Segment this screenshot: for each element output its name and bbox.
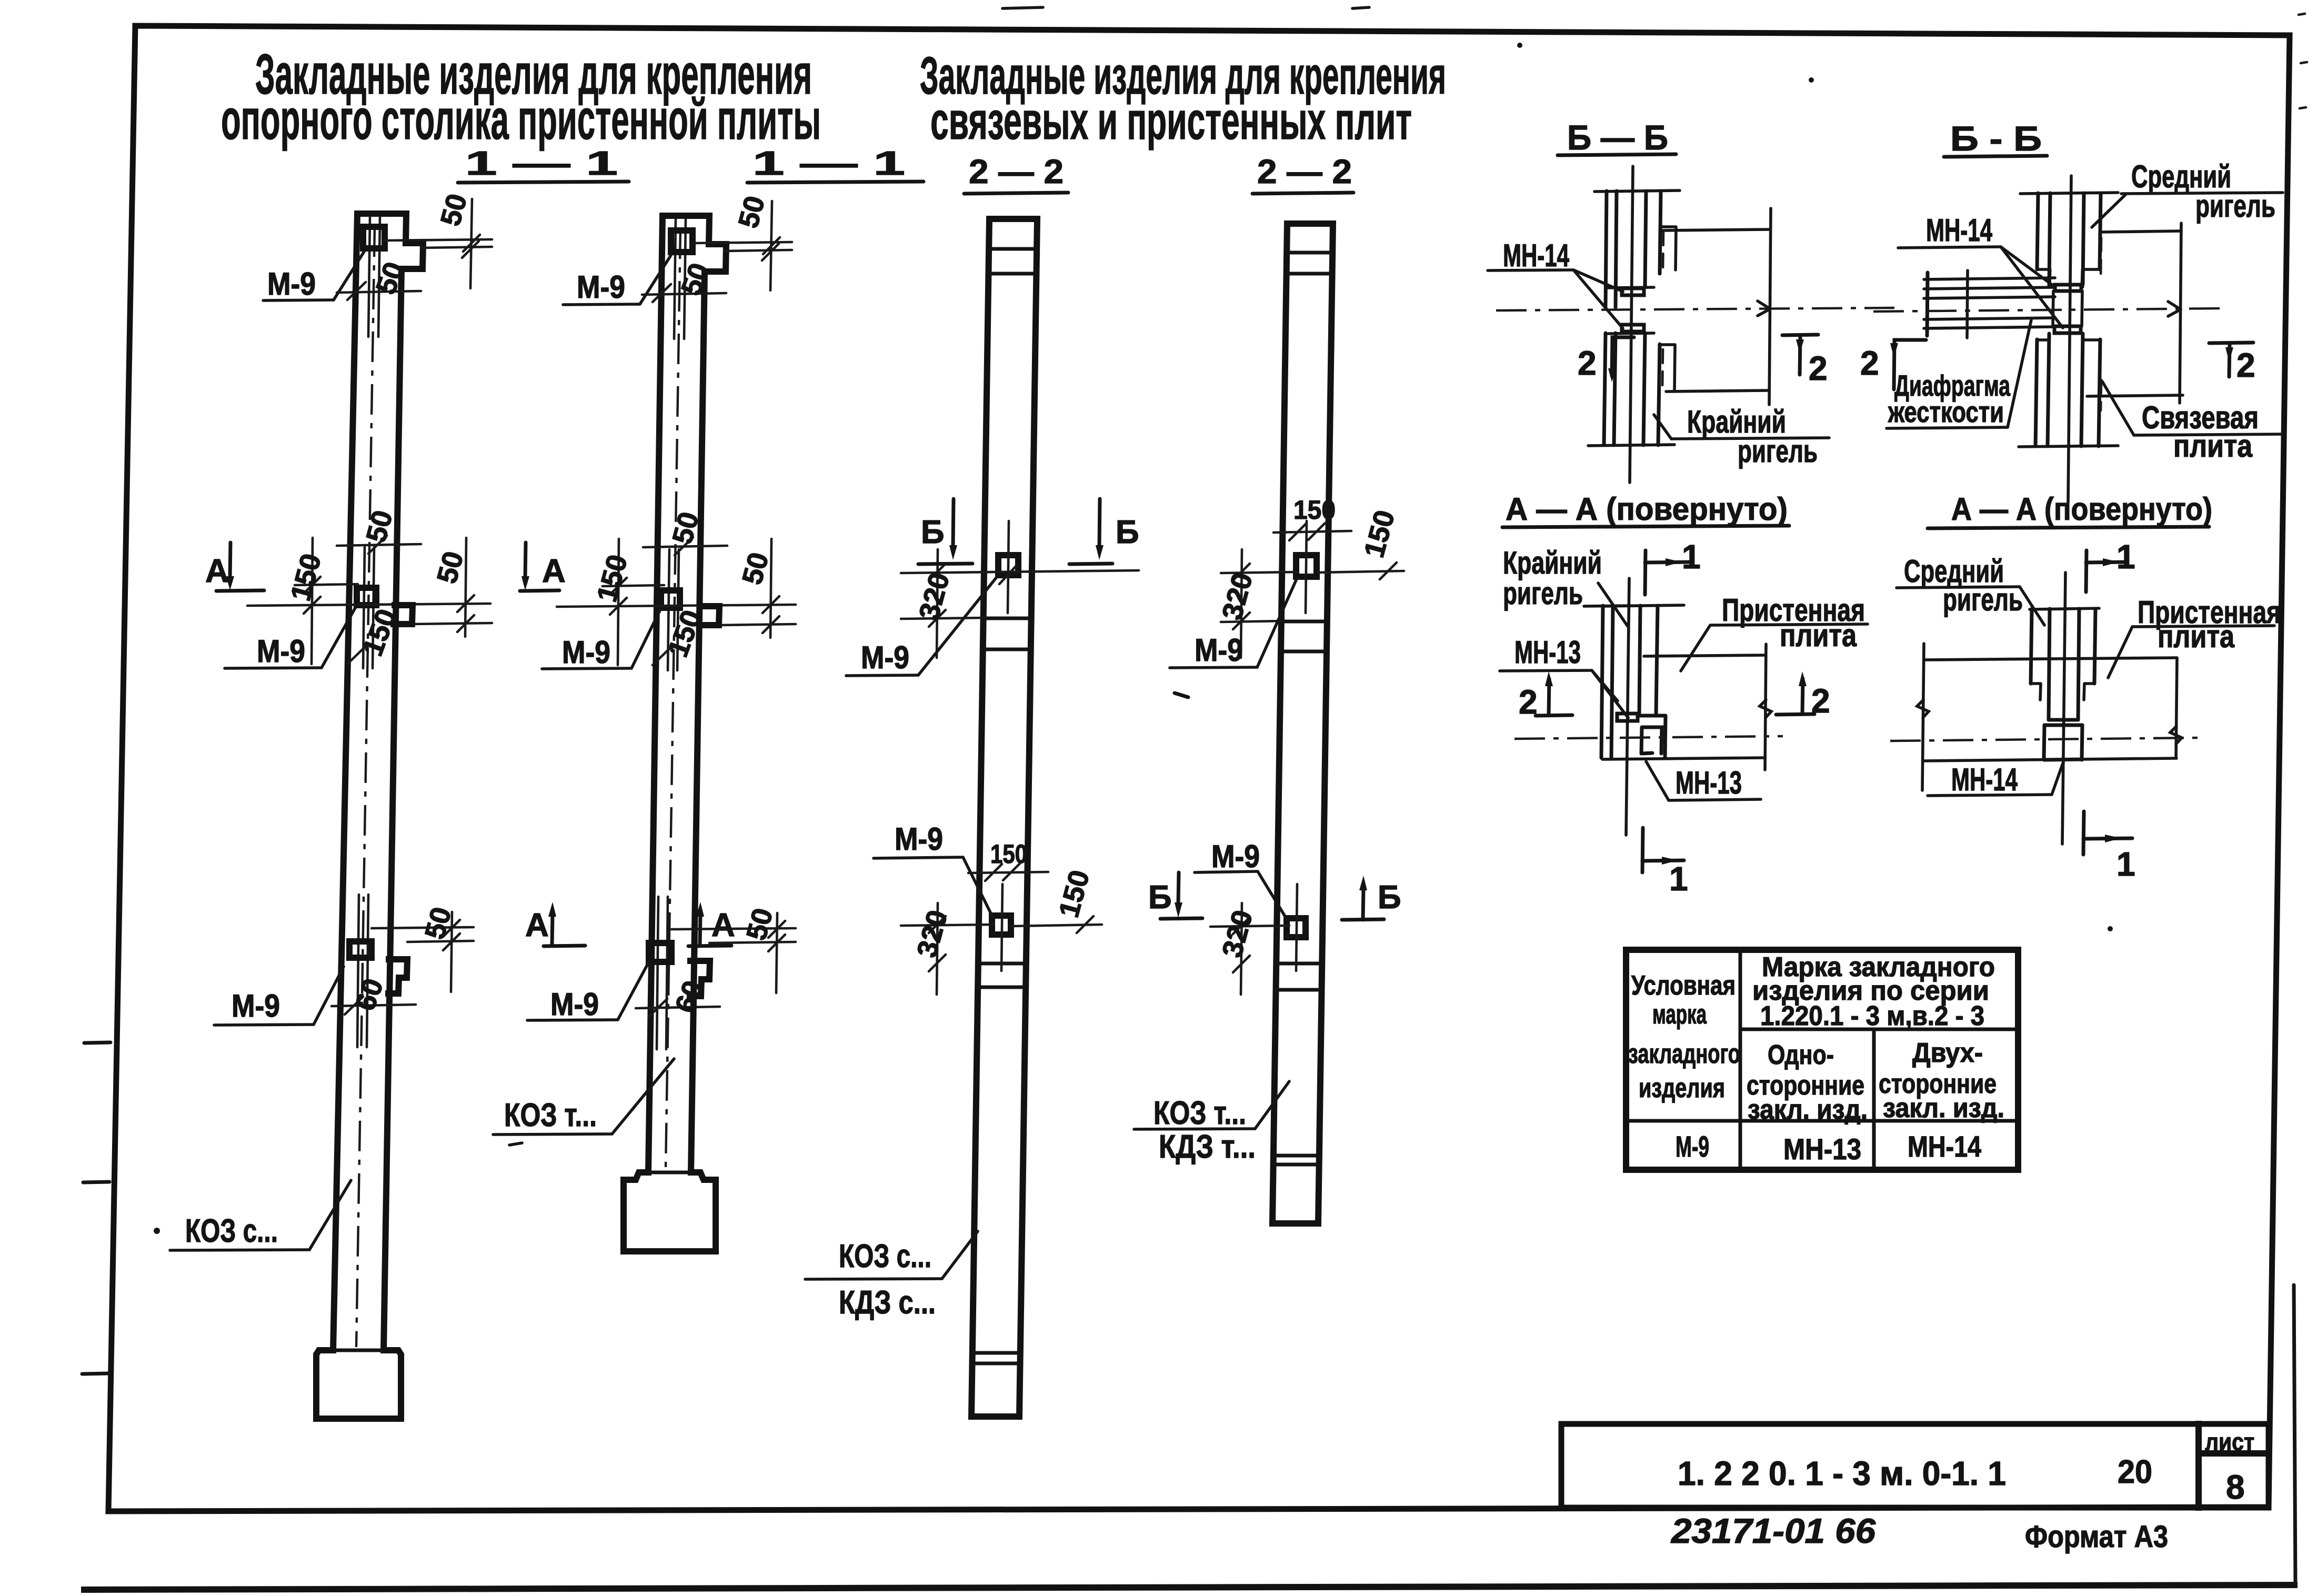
- dimension 50 right of middle corbel column 2: [718, 539, 796, 638]
- svg-text:23171-01 66: 23171-01 66: [1670, 1511, 1876, 1550]
- column 4 bottom band: [1273, 1154, 1319, 1158]
- dimension 150 left of middle plate column 1: [247, 538, 490, 664]
- column 2 foot shoulder line: [648, 1171, 691, 1175]
- svg-text:М-9: М-9: [895, 821, 943, 857]
- dimension 320 first on column 4: [1221, 549, 1298, 658]
- svg-text:МН-13: МН-13: [1783, 1132, 1861, 1166]
- section mark А bottom right of column 2: [688, 902, 735, 946]
- dimension 150 left of middle plate column 2: [557, 539, 796, 665]
- svg-text:М-9: М-9: [861, 640, 909, 675]
- column 3 bottom band: [972, 1351, 1020, 1355]
- left margin tick 3: [82, 1373, 108, 1374]
- scan speck top dash 1: [1002, 7, 1043, 8]
- svg-text:М-9: М-9: [1676, 1130, 1709, 1163]
- column 2 anchor lines top: [674, 219, 686, 339]
- dimension 320 first on column 3: [929, 549, 1018, 658]
- svg-text:М-9: М-9: [577, 269, 625, 305]
- А-А2 section flag 1 bottom: [2083, 811, 2135, 883]
- scan speck right edge marks: [2299, 14, 2307, 108]
- svg-text:8: 8: [2226, 1468, 2245, 1506]
- Б-Б1 lower column verticals: [1604, 333, 1660, 445]
- section mark А bottom left of column 2: [525, 902, 585, 946]
- svg-text:МН-14: МН-14: [1503, 238, 1569, 273]
- embedded plate М-9 middle on column 2: [661, 590, 680, 608]
- svg-text:А: А: [525, 907, 549, 943]
- svg-text:М-9: М-9: [1195, 633, 1243, 668]
- embedded plate М-9 first on column 3: [998, 555, 1018, 575]
- Б-Б2 diaphragm horizontal lines: [1924, 278, 2055, 328]
- svg-text:МН-14: МН-14: [1908, 1130, 1981, 1163]
- svg-text:связевых и пристенных плит: связевых и пристенных плит: [930, 92, 1412, 150]
- column 2 centerline: [666, 228, 680, 1168]
- table outer border: [1626, 950, 2018, 1170]
- svg-text:М-9: М-9: [1211, 839, 1260, 874]
- dimension 320 second on column 4: [1210, 903, 1289, 995]
- scan speck dot near title: [1517, 43, 1522, 48]
- column 1 anchor lines bottom: [357, 895, 368, 1047]
- svg-text:А: А: [542, 553, 566, 589]
- scan speck dot above Б-Б: [1809, 77, 1814, 83]
- Б-Б2 embedded plate МН-14 lower: [2054, 326, 2081, 333]
- А-А1 section flag 2 left: [1519, 671, 1572, 721]
- embedded plate М-9 top on column 1: [363, 227, 385, 248]
- Б-Б1 upper plate seat line: [1608, 287, 1654, 288]
- embedded plate М-9 first on column 4: [1296, 555, 1317, 577]
- Б-Б2 beam hidden top dash: [2101, 238, 2101, 279]
- outer sheet bottom edge: [84, 1585, 2294, 1590]
- Б-Б1 lower plate МН-14: [1622, 325, 1644, 332]
- А-А1 section flag 1 bottom: [1642, 828, 1688, 898]
- title block ЛИСТ cell divider horizontal: [2199, 1450, 2269, 1457]
- embedded plate М-9 bottom on column 2: [649, 943, 671, 962]
- svg-text:М-9: М-9: [232, 988, 280, 1023]
- Б-Б2 beam right boundary with arrow: [2180, 223, 2181, 403]
- table horizontal divider 1: [1740, 1028, 2018, 1031]
- middle corbel of column 2: [699, 606, 719, 625]
- Б-Б1 beam right boundary with arrow: [1769, 208, 1771, 405]
- column elevation 1-1 second (КОЗ т...): [493, 193, 796, 1251]
- Б-Б2 beam top edge: [2101, 231, 2181, 232]
- А-А1 section flag 2 right: [1776, 671, 1830, 720]
- column 1 foot shoulder lines: [333, 1349, 384, 1352]
- scan speck dot left margin: [154, 1228, 160, 1234]
- Б-Б2 diaphragm left end bar: [1927, 273, 1928, 336]
- А-А2 plate top edge: [1924, 658, 2176, 660]
- svg-text:Б: Б: [921, 514, 945, 550]
- А-А2 column verticals: [2031, 609, 2095, 720]
- Б-Б1 hidden edge dashes upper: [1663, 232, 1663, 270]
- column 3 band below first plate: [984, 617, 1031, 620]
- А-А1 embedded angle МН-13 upper: [1617, 714, 1638, 721]
- table vertical divider 2: [1872, 1029, 1876, 1170]
- column 3 band below second plate: [978, 962, 1026, 966]
- svg-text:КОЗ т...: КОЗ т...: [504, 1097, 597, 1133]
- table vertical divider 1: [1739, 950, 1742, 1170]
- section mark А left of column 1: [205, 543, 264, 591]
- detail А-А second (средний ригель, МН-14): [1890, 538, 2281, 883]
- left margin tick 1: [84, 1042, 111, 1043]
- column 4 plate 2 axis vertical: [1296, 884, 1297, 971]
- Б-Б1 centerline vertical: [1630, 166, 1633, 483]
- А-А2 joint plates: [2044, 720, 2082, 725]
- embedded plate М-9 bottom on column 1: [349, 941, 372, 958]
- Б-Б1 embedded plate МН-14 upper: [1622, 288, 1644, 295]
- svg-text:2: 2: [1860, 344, 1879, 382]
- svg-text:закл. изд.: закл. изд.: [1748, 1095, 1868, 1125]
- scan speck dash middle: [509, 1143, 522, 1145]
- Б-Б1 hidden edge dashes lower: [1662, 349, 1663, 389]
- svg-text:1: 1: [2117, 845, 2135, 883]
- А-А2 plate bottom edge: [1923, 758, 2176, 761]
- column 3 outline: [971, 219, 1037, 1417]
- svg-text:жесткости: жесткости: [1888, 395, 2004, 428]
- column 1 anchor lines top: [368, 217, 380, 337]
- section mark Б second right of column 4: [1342, 876, 1401, 920]
- А-А2 column top cap: [2030, 608, 2099, 609]
- А-А2 section flag 1 top: [2086, 538, 2135, 592]
- svg-text:1 — 1: 1 — 1: [753, 144, 905, 182]
- svg-text:А: А: [711, 907, 735, 943]
- detail Б-Б first (крайний ригель): [1488, 166, 1894, 483]
- dimension 50 top right of column 1: [385, 199, 492, 288]
- А-А1 axis dash-dot horizontal: [1514, 736, 1783, 739]
- column 3 plate 2 axis vertical: [1001, 884, 1002, 971]
- svg-text:М-9: М-9: [267, 266, 316, 302]
- svg-text:закл. изд.: закл. изд.: [1883, 1093, 2004, 1123]
- svg-text:1: 1: [1682, 538, 1701, 576]
- А-А2 axis dash-dot horizontal: [1890, 738, 2199, 741]
- section mark Б first left of column 3: [918, 499, 972, 564]
- Б-Б2 section flag 2 left: [1860, 340, 1926, 389]
- column elevation 2-2 second (КОЗ т/КДЗ т): [1134, 224, 1404, 1223]
- svg-text:изделия: изделия: [1639, 1073, 1725, 1103]
- svg-text:М-9: М-9: [550, 987, 599, 1022]
- Б-Б1 section flag 2 left: [1578, 337, 1634, 382]
- column 1 centerline: [356, 226, 375, 1347]
- А-А1 column top cap: [1602, 605, 1684, 606]
- column 2 anchor lines middle: [668, 549, 679, 670]
- svg-text:МН-14: МН-14: [1926, 213, 1992, 248]
- title block outline: [1561, 1424, 2269, 1508]
- svg-text:2: 2: [2236, 346, 2255, 384]
- А-А1 plate break mark: [1760, 700, 1771, 718]
- section mark А left of column 2: [520, 543, 566, 591]
- Б-Б2 bottom cap line: [2019, 446, 2118, 447]
- А-А2 lower block: [2044, 725, 2082, 760]
- Б-Б2 centerline vertical: [2068, 176, 2071, 502]
- svg-text:Б: Б: [1116, 514, 1139, 550]
- А-А2 column centerline vertical: [2062, 573, 2065, 844]
- section mark Б first right of column 3: [1069, 499, 1139, 564]
- Б-Б2 inner verticals to joint: [2049, 269, 2083, 287]
- svg-text:2 — 2: 2 — 2: [969, 153, 1064, 190]
- Б-Б1 upper right ledge: [1660, 227, 1676, 270]
- dimension 150 rotated right of plate 2 column 3: [1011, 925, 1102, 926]
- svg-text:А — А (повернуто): А — А (повернуто): [1951, 491, 2212, 527]
- svg-text:1: 1: [1669, 860, 1688, 898]
- Б-Б1 beam top edge: [1661, 229, 1770, 230]
- Б-Б1 section flag 2 right: [1782, 335, 1828, 387]
- svg-text:МН-13: МН-13: [1514, 635, 1581, 670]
- column 4 outline: [1272, 224, 1333, 1223]
- svg-text:КДЗ с...: КДЗ с...: [839, 1284, 936, 1321]
- table of embedded item marks: [1626, 950, 2018, 1170]
- dimension 50 right of middle corbel column 1: [413, 538, 492, 637]
- middle corbel of column 1: [394, 605, 413, 624]
- dimension 50 at top plate of column 1: [337, 291, 421, 293]
- title block ЛИСТ cell divider vertical: [2195, 1424, 2202, 1508]
- Б-Б1 joint axis dash-dot: [1496, 308, 1894, 310]
- А-А1 plate top edge: [1644, 655, 1766, 656]
- scan speck dash between columns: [1175, 693, 1188, 697]
- svg-text:КОЗ т...: КОЗ т...: [1154, 1095, 1246, 1131]
- column 4 band below second plate: [1276, 962, 1322, 966]
- svg-text:2 — 2: 2 — 2: [1257, 153, 1352, 190]
- table horizontal divider 2: [1626, 1119, 2018, 1123]
- svg-text:1: 1: [2117, 538, 2135, 576]
- column 4 top joint band: [1287, 251, 1332, 255]
- svg-text:Одно-: Одно-: [1768, 1040, 1834, 1070]
- dimension 50 at top plate of column 2: [642, 293, 726, 295]
- svg-text:Двух-: Двух-: [1912, 1038, 1983, 1068]
- embedded plate М-9 top on column 2: [671, 230, 693, 252]
- svg-text:М-9: М-9: [562, 635, 610, 670]
- stray scan marks: [154, 7, 2307, 1234]
- svg-text:2: 2: [1809, 349, 1828, 387]
- Б-Б1 bottom cap line: [1588, 445, 1674, 446]
- title block: [1561, 1424, 2269, 1554]
- svg-text:1 — 1: 1 — 1: [465, 144, 618, 182]
- Б-Б2 upper steps: [2037, 268, 2100, 271]
- bottom corbel of column 2: [690, 961, 710, 996]
- svg-text:1.220.1 - 3 м,в.2 - 3: 1.220.1 - 3 м,в.2 - 3: [1760, 1001, 1984, 1031]
- А-А1 column centerline vertical: [1626, 578, 1629, 835]
- Б-Б1 lower right ledge: [1659, 345, 1675, 391]
- Б-Б2 upper column verticals: [2037, 193, 2101, 284]
- column elevation 2-2 first (КОЗ с/КДЗ с): [805, 219, 1139, 1417]
- dimension 60 bottom plate column 2: [636, 1007, 720, 1008]
- svg-text:М-9: М-9: [257, 634, 305, 669]
- Б-Б2 beam bottom edge: [2087, 395, 2183, 396]
- А-А1 section flag 1 top: [1645, 538, 1701, 595]
- svg-text:МН-14: МН-14: [1951, 762, 2018, 797]
- embedded plate М-9 second on column 3: [992, 916, 1011, 935]
- left margin tick 2: [83, 1182, 109, 1182]
- column 3 plate 1 lower extension: [901, 618, 985, 619]
- Б-Б2 joint axis dash-dot: [1873, 308, 2225, 312]
- dimension 50 bottom plate column 2: [671, 913, 796, 993]
- Б-Б2 embedded plate МН-14 upper: [2055, 285, 2081, 291]
- А-А1 column verticals: [1601, 606, 1658, 758]
- detail Б-Б second (средний ригель): [1860, 159, 2283, 502]
- column 2 outline: [624, 216, 726, 1251]
- svg-text:опорного столика пристенной: опорного столика пристенной плиты: [221, 87, 821, 151]
- svg-text:Крайний: Крайний: [1503, 545, 1602, 580]
- column 1 outline: [316, 214, 423, 1419]
- svg-text:2: 2: [1578, 344, 1597, 382]
- А-А1 plate right boundary: [1765, 644, 1766, 770]
- scan speck dot right of table: [2108, 926, 2113, 931]
- section mark Б second left of column 4: [1148, 872, 1202, 919]
- detail А-А first (крайний ригель, МН-13): [1500, 538, 1868, 898]
- svg-text:20: 20: [2118, 1454, 2152, 1490]
- Б-Б2 lower column verticals: [2035, 334, 2100, 446]
- scan speck top dash 2: [1352, 7, 1369, 8]
- dimension 60 bottom plate column 1: [332, 1005, 416, 1006]
- Б-Б1 lower plate seat line: [1608, 333, 1654, 334]
- Б-Б2 top cap line: [2020, 193, 2118, 194]
- Б-Б2 lower steps: [2037, 338, 2100, 342]
- svg-text:закладного: закладного: [1628, 1039, 1740, 1069]
- svg-text:ригель: ригель: [1503, 576, 1583, 611]
- column 1 anchor lines middle: [363, 547, 374, 668]
- svg-text:КОЗ с...: КОЗ с...: [839, 1238, 931, 1274]
- Б-Б1 top cap line: [1594, 190, 1680, 192]
- svg-text:лист: лист: [2205, 1428, 2254, 1456]
- svg-text:КДЗ т...: КДЗ т...: [1159, 1129, 1256, 1165]
- А-А2 column step notches: [2031, 684, 2094, 700]
- Б-Б1 upper column verticals: [1606, 191, 1661, 307]
- svg-text:150: 150: [1293, 495, 1336, 525]
- svg-text:Условная: Условная: [1631, 970, 1736, 1001]
- column 4 plate 1 axis vertical: [1306, 521, 1307, 613]
- svg-text:Б - Б: Б - Б: [1950, 119, 2042, 158]
- svg-text:А: А: [205, 553, 229, 589]
- dimension 50 small above middle plate column 1: [337, 544, 421, 546]
- column 2 anchor lines bottom: [657, 897, 668, 1049]
- embedded plate М-9 second on column 4: [1287, 918, 1306, 937]
- Б-Б1 beam bottom edge: [1666, 390, 1768, 392]
- column 4 band below first plate: [1281, 620, 1327, 624]
- dimension 50 top right of column 2: [693, 201, 792, 290]
- Б-Б2 diaphragm tick: [1967, 270, 1968, 338]
- Б-Б2 section flag 2 right: [2209, 343, 2255, 384]
- Б-Б2 hidden edge dashes lower: [2101, 380, 2101, 410]
- dimension 320 second on column 3: [901, 903, 994, 995]
- svg-text:А — А (повернуто): А — А (повернуто): [1506, 491, 1788, 527]
- embedded plate М-9 middle on column 1: [357, 588, 376, 605]
- svg-text:марка: марка: [1652, 999, 1707, 1030]
- svg-text:1. 2 2 0. 1 - 3 м. 0-1. 1: 1. 2 2 0. 1 - 3 м. 0-1. 1: [1678, 1454, 2006, 1492]
- svg-text:КОЗ с...: КОЗ с...: [185, 1213, 278, 1249]
- dimension 150 rotated right of plate 1 column 4: [1318, 571, 1404, 573]
- svg-text:Б: Б: [1148, 879, 1172, 916]
- svg-text:плита: плита: [2158, 619, 2235, 654]
- outer sheet right edge: [2294, 1285, 2295, 1586]
- А-А1 plate bottom edge: [1602, 758, 1764, 759]
- А-А1 corbel block outline: [1639, 677, 1666, 758]
- svg-text:150: 150: [990, 839, 1027, 869]
- dimension 50 bottom plate column 1: [372, 912, 474, 992]
- А-А2 plate left boundary with break: [1922, 644, 1924, 790]
- svg-text:Формат А3: Формат А3: [2025, 1520, 2168, 1554]
- dimension 50 small above middle plate column 2: [643, 546, 727, 547]
- Б-Б2 joint block outline: [2053, 291, 2082, 326]
- svg-text:Б — Б: Б — Б: [1567, 118, 1668, 157]
- column elevation 1-1 first (КОЗ с...): [170, 190, 492, 1419]
- svg-text:Б: Б: [1378, 879, 1401, 916]
- column 3 top joint band: [989, 247, 1037, 251]
- bottom corbel of column 1: [388, 959, 407, 993]
- А-А2 plate right boundary with break: [2176, 658, 2177, 758]
- column 3 plate 1 axis vertical: [1008, 521, 1009, 613]
- svg-text:МН-13: МН-13: [1676, 765, 1742, 800]
- column 3 plate 1 extension line long: [901, 570, 1139, 573]
- А-А1 embedded angle МН-13 lower hook: [1641, 727, 1662, 754]
